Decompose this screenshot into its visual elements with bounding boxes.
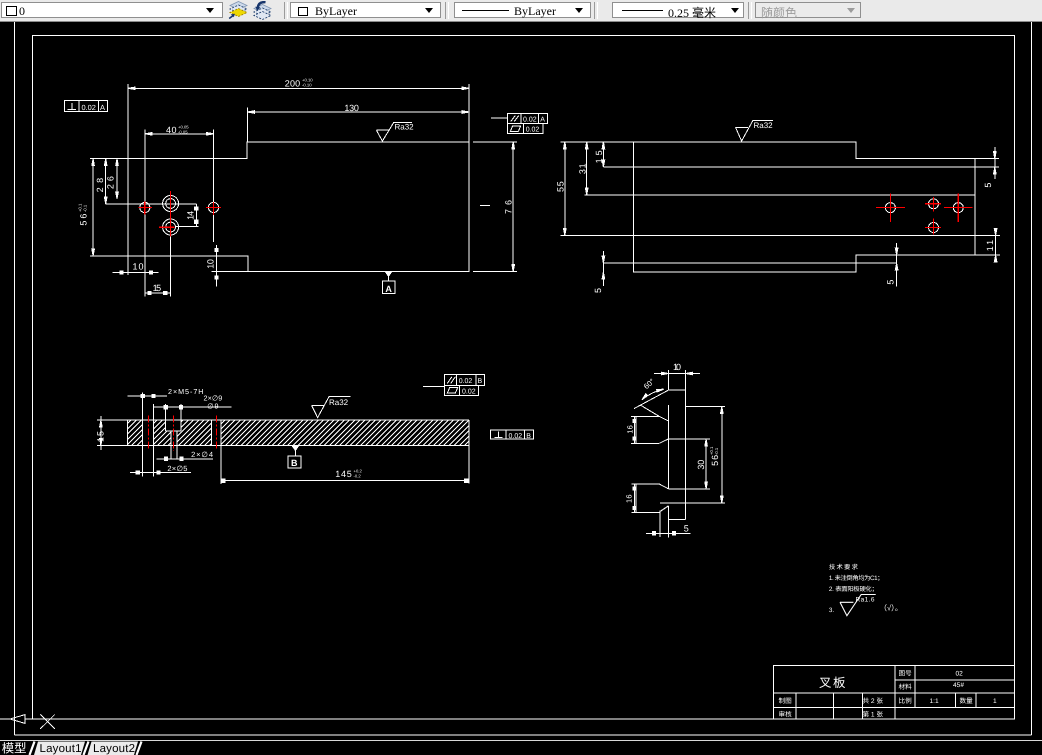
hole c1	[140, 202, 150, 212]
svg-text:130: 130	[344, 103, 359, 113]
svg-text:技术要求: 技术要求	[829, 563, 859, 571]
dim 14	[195, 204, 197, 227]
hole1 right edge	[153, 404, 155, 477]
bar bottom edge	[97, 445, 469, 447]
red center marks of top-right view	[876, 193, 973, 234]
svg-text:10: 10	[206, 259, 216, 269]
slant box1 top to edge	[659, 416, 668, 421]
hole c2	[208, 202, 218, 212]
svg-text:0.02: 0.02	[82, 103, 96, 112]
dim 11 right	[995, 228, 997, 262]
svg-text:模型: 模型	[2, 742, 27, 755]
centerlines hole h1	[876, 207, 905, 209]
UCS icon X mark	[40, 715, 55, 729]
svg-text:16: 16	[624, 494, 633, 503]
svg-text:40: 40	[166, 125, 177, 135]
dim 10 step	[216, 245, 218, 287]
title block horizontal dividers	[895, 679, 1015, 681]
svg-text:2×∅5: 2×∅5	[167, 464, 187, 473]
svg-text:26: 26	[106, 176, 116, 189]
svg-text:11: 11	[985, 240, 995, 251]
svg-text:Ra32: Ra32	[754, 121, 774, 130]
dim 55	[564, 142, 566, 236]
plot style combo (disabled)	[755, 2, 861, 18]
layer combo	[1, 2, 223, 18]
svg-text:比例: 比例	[899, 697, 913, 705]
svg-text:0.02: 0.02	[523, 117, 537, 124]
sheet outer edge left	[13, 21, 15, 735]
dim 10	[654, 373, 700, 375]
centerlines hole h4	[925, 227, 941, 229]
svg-text:28: 28	[95, 178, 105, 193]
svg-text:制图: 制图	[779, 697, 793, 705]
part outline (top view)	[634, 142, 975, 272]
dim 16 upper	[634, 416, 636, 443]
centerline hole3	[216, 416, 218, 451]
dim 76	[512, 142, 514, 272]
dim 30	[705, 439, 707, 489]
svg-text:-0.10: -0.10	[302, 83, 312, 88]
svg-text:0.02: 0.02	[526, 127, 540, 134]
centerline c3/c4 vertical	[170, 191, 172, 237]
svg-text:1:1: 1:1	[930, 698, 939, 705]
svg-text:-0.2: -0.2	[354, 474, 362, 479]
lower tooth box	[632, 483, 660, 485]
centerline hole1	[147, 416, 149, 451]
tolerance box perpendicular 0.02 A	[64, 101, 107, 112]
part outline (front view)	[128, 142, 469, 272]
Layout2 tab	[88, 742, 139, 755]
svg-text:共 2 张: 共 2 张	[863, 697, 884, 705]
Phi4 hole edges	[170, 431, 172, 459]
dim 2xM5-7H	[128, 395, 168, 397]
dim 5 bottom-middle	[896, 243, 898, 286]
lineweight combo	[612, 2, 744, 18]
svg-text:A: A	[385, 284, 392, 294]
profile right edge	[685, 370, 687, 519]
svg-text:-0.1: -0.1	[714, 447, 719, 455]
dim 200 line	[128, 87, 469, 89]
svg-text:145: 145	[335, 469, 352, 479]
svg-text:1. 未注倒角均为C1；: 1. 未注倒角均为C1；	[829, 574, 884, 582]
dim 56	[92, 159, 94, 256]
dim 145	[221, 480, 469, 482]
Layout1 tab	[34, 742, 85, 755]
svg-text:10: 10	[673, 362, 681, 372]
dim 5 top-right	[994, 147, 996, 179]
svg-text:16: 16	[626, 425, 635, 434]
svg-text:Ra1.6: Ra1.6	[856, 597, 875, 604]
svg-text:30: 30	[696, 460, 706, 470]
tooth lower slant	[641, 405, 660, 416]
right lower ext y255	[975, 254, 1000, 256]
svg-text:2×M5-7H: 2×M5-7H	[168, 387, 204, 396]
dim 56	[721, 407, 723, 503]
hole h3	[953, 203, 963, 213]
hole row extension line	[106, 203, 197, 205]
centerline hole2	[172, 416, 174, 451]
svg-text:A: A	[100, 103, 105, 112]
tooth upper slant	[634, 390, 668, 409]
title block vertical dividers	[894, 665, 896, 719]
internal edge y263	[603, 262, 896, 264]
hole h2	[929, 199, 939, 209]
svg-text:5: 5	[593, 288, 603, 293]
svg-text:5: 5	[684, 524, 689, 534]
top edge extension	[561, 141, 634, 143]
svg-text:45#: 45#	[953, 682, 964, 689]
hole1 left edge full ext	[142, 393, 144, 477]
svg-text:15: 15	[96, 431, 106, 442]
svg-text:200: 200	[285, 79, 301, 89]
svg-text:56: 56	[79, 214, 89, 226]
svg-text:5: 5	[983, 183, 993, 188]
centerlines hole c2	[206, 206, 221, 208]
surface finish Ra32 symbol	[312, 397, 351, 418]
centerlines hole c1	[139, 207, 153, 209]
dim 40 line	[145, 133, 214, 135]
svg-text:15: 15	[153, 283, 162, 293]
svg-text:1: 1	[993, 698, 997, 705]
svg-text:60°: 60°	[642, 377, 656, 391]
internal edge y195	[584, 194, 975, 196]
dim 31	[586, 142, 588, 195]
UCS icon arrow	[0, 715, 33, 724]
svg-text:审核: 审核	[779, 710, 793, 718]
svg-text:76: 76	[504, 200, 514, 214]
bottom edge	[668, 518, 685, 520]
ext 30 top	[668, 438, 710, 440]
hatch lines	[166, 431, 171, 446]
svg-text:15: 15	[594, 150, 604, 163]
svg-text:第 1 张: 第 1 张	[863, 710, 884, 718]
svg-text:Ra32: Ra32	[329, 398, 349, 407]
internal edge y235.5	[561, 235, 1000, 237]
svg-text:3.: 3.	[829, 607, 835, 614]
svg-text:∅9: ∅9	[207, 402, 218, 411]
svg-text:55: 55	[556, 181, 566, 192]
svg-text:14: 14	[185, 211, 195, 220]
svg-text:A: A	[540, 117, 545, 124]
svg-text:31: 31	[578, 163, 588, 174]
sheet outer edge right	[1031, 21, 1033, 735]
sheet outer edge bottom	[14, 734, 1031, 736]
svg-text:10: 10	[133, 262, 144, 272]
svg-text:02: 02	[956, 671, 964, 678]
bottom tab bar	[0, 741, 1042, 755]
datum A flag	[386, 272, 392, 276]
layer toolbar buttons	[227, 1, 249, 20]
linetype combo	[454, 2, 591, 18]
hole h1	[885, 203, 895, 213]
dim 15 bottom	[144, 292, 170, 294]
dim 15 left	[100, 416, 102, 450]
hole h4	[929, 223, 939, 233]
svg-text:Layout1: Layout1	[40, 743, 82, 755]
dim 16 lower	[634, 484, 636, 512]
svg-text:数量: 数量	[960, 697, 974, 705]
ext 56 bottom	[660, 502, 725, 504]
dim 60 arc	[642, 389, 664, 400]
svg-text:56: 56	[710, 455, 720, 466]
dim 5 bottom-left	[602, 251, 604, 286]
dim 2xPhi9	[153, 406, 232, 408]
dim 2xPhi5	[130, 472, 191, 474]
svg-text:5: 5	[886, 280, 896, 285]
ext 56 top	[686, 406, 725, 408]
ext 30 bottom	[668, 488, 710, 490]
svg-text:0.02: 0.02	[459, 378, 473, 385]
svg-text:0.02: 0.02	[509, 433, 523, 440]
svg-text:叉板: 叉板	[819, 676, 847, 690]
centerlines hole h3	[944, 207, 973, 209]
hole3 edges	[210, 420, 212, 446]
datum B flag	[292, 446, 298, 450]
lower left edge + ext	[667, 506, 669, 538]
red center marks of top-left view	[139, 191, 221, 237]
profile left edge ext (10 dim)	[667, 370, 669, 390]
red centerlines of section bar	[148, 416, 216, 451]
dim 130 line	[247, 111, 469, 113]
svg-text:Layout2: Layout2	[93, 743, 135, 755]
surface finish Ra32 symbol	[376, 122, 412, 141]
svg-text:2×∅4: 2×∅4	[191, 450, 213, 459]
bar top edge	[97, 419, 469, 421]
svg-text:图号: 图号	[899, 669, 913, 677]
svg-text:-0.1: -0.1	[83, 204, 88, 212]
svg-text:（√）。: （√）。	[880, 604, 903, 613]
counterbored hole c4	[163, 219, 179, 235]
dim 26	[116, 159, 118, 199]
hatch lines	[154, 420, 166, 446]
hatch lines	[221, 420, 469, 446]
svg-text:2. 表面阳极硬化；: 2. 表面阳极硬化；	[829, 585, 878, 593]
hatch lines	[177, 431, 181, 446]
tech req surface symbol	[840, 595, 876, 616]
dim 28	[105, 159, 107, 204]
hatch lines	[181, 420, 211, 446]
stacked tolerance boxes parallel/flatness 0.02 B	[423, 386, 445, 388]
title block outer box	[774, 665, 1015, 719]
dim 15	[602, 142, 604, 167]
color combo	[290, 2, 441, 18]
svg-text:-0.05: -0.05	[178, 129, 188, 134]
M5 hole left/right/bottom	[165, 404, 167, 431]
section bar hatched areas	[127, 420, 469, 446]
dim 2xPhi4	[157, 458, 214, 460]
center tick near 76	[480, 205, 490, 207]
upper tooth box	[631, 415, 659, 417]
centerline c4 horizontal	[159, 226, 175, 228]
profile top edge	[668, 389, 685, 391]
bar right edge + ext	[468, 420, 470, 484]
svg-text:B: B	[478, 378, 483, 385]
counterbored hole c3	[163, 196, 179, 212]
svg-text:B: B	[526, 433, 531, 440]
bar left edge	[126, 420, 128, 446]
internal edge y167	[603, 166, 999, 168]
surface finish Ra32 symbol	[736, 121, 773, 142]
stacked tolerance boxes parallel/flatness 0.02 A	[491, 117, 508, 119]
svg-text:材料: 材料	[899, 683, 913, 691]
left edge mid	[667, 405, 669, 489]
dim 10 bottom-left	[113, 272, 159, 274]
dim 5 bottom	[646, 532, 690, 534]
tolerance box perpendicular 0.02 B	[491, 430, 534, 439]
svg-text:B: B	[291, 458, 298, 468]
hatch lines	[127, 420, 142, 446]
svg-text:0.02: 0.02	[462, 388, 476, 395]
svg-text:Ra32: Ra32	[395, 122, 415, 131]
centerlines hole h2	[925, 203, 941, 205]
